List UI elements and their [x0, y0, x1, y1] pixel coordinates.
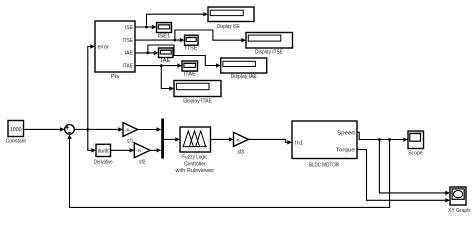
svg-text:IAE: IAE [125, 51, 134, 57]
svg-text:Display IAE: Display IAE [231, 74, 257, 80]
mux Mux [161, 119, 164, 159]
constant block Constant (1000) [6, 121, 26, 145]
node junction on ITAE wire [160, 64, 163, 67]
node junction Speed to XY Graph branch [378, 138, 381, 141]
wire ISE branch to Display ISE [147, 12, 209, 27]
svg-text:with Ruleviewer: with Ruleviewer [175, 168, 215, 174]
wire ITSE branch to Display ITSE [175, 30, 246, 42]
svg-text:Display ISE: Display ISE [217, 24, 240, 30]
derivative block du/dt [94, 144, 113, 165]
scope ITSE [185, 35, 199, 51]
display Display ITSE [246, 33, 293, 56]
svg-text:-K-: -K- [125, 127, 132, 132]
svg-text:ISE1: ISE1 [158, 34, 171, 40]
wire sf2 to Mux [150, 148, 161, 152]
wire Constant to Sum [24, 127, 65, 131]
scope ISE1 [157, 23, 172, 40]
wire Mux to Fuzzy Logic Controller [164, 137, 180, 141]
display Display ISE [208, 7, 254, 30]
svg-text:-K-: -K- [235, 137, 242, 142]
node error tap junction [86, 128, 89, 131]
svg-text:Controller: Controller [184, 161, 206, 167]
node junction Speed feedback branch [388, 138, 391, 141]
wire tap down to Derivative [88, 129, 96, 152]
svg-text:ISE: ISE [125, 25, 134, 31]
svg-text:1000: 1000 [10, 127, 22, 133]
wire IAE branch to Display IAE [148, 45, 221, 68]
wire Speed output to Scope [357, 132, 408, 141]
svg-text:Display ITAE: Display ITAE [183, 98, 212, 104]
svg-text:XY Graph: XY Graph [448, 208, 470, 214]
wire IAE output to scope IAE [135, 51, 159, 55]
wire Derivative to gain sf2 [111, 148, 135, 152]
svg-text:IAE: IAE [161, 58, 171, 64]
svg-text:Derivative: Derivative [94, 160, 113, 166]
wire Speed branch to XY Graph first input [379, 140, 450, 196]
svg-text:sf3: sf3 [237, 149, 244, 155]
svg-text:Torque: Torque [336, 148, 355, 154]
scope ITAE [182, 61, 198, 77]
svg-text:PIs: PIs [111, 74, 120, 80]
svg-text:In1: In1 [295, 140, 303, 146]
node junction on ITSE wire [174, 39, 177, 42]
fuzzy logic controller block Fuzzy Logic Controller with Ruleviewer [175, 127, 215, 174]
node junction on ISE wire [145, 26, 148, 29]
display Display ITAE [174, 81, 221, 105]
svg-text:BLDC MOTOR: BLDC MOTOR [309, 162, 339, 168]
wire Sum output to gain sf1 [74, 127, 123, 131]
gain sf3 [234, 132, 249, 155]
wire Fuzzy Logic Controller to gain sf3 [211, 137, 234, 141]
svg-text:ITSE: ITSE [123, 38, 134, 44]
svg-text:du/dt: du/dt [98, 148, 110, 154]
subsystem BLDC MOTOR [292, 121, 357, 168]
svg-text:Scope: Scope [408, 150, 423, 156]
wire ISE output to scope ISE1 [135, 25, 157, 29]
sum junction [65, 125, 75, 135]
svg-text:sf2: sf2 [139, 159, 146, 165]
scope IAE [159, 48, 174, 64]
svg-text:-K-: -K- [136, 148, 143, 153]
wire ITSE output to scope ITSE [135, 38, 185, 42]
svg-text:Speed: Speed [337, 131, 355, 137]
svg-text:error: error [98, 45, 109, 51]
svg-text:sf1: sf1 [127, 139, 134, 145]
wire Torque output to XY Graph second input [357, 150, 450, 203]
svg-text:ITAE: ITAE [123, 63, 134, 69]
gain sf1 [123, 123, 138, 145]
xy graph XY Graph [448, 187, 470, 214]
svg-text:Display ITSE: Display ITSE [255, 50, 283, 56]
gain sf2 [134, 143, 150, 166]
wire sf1 to Mux [138, 127, 162, 131]
subsystem PIs [95, 21, 135, 80]
wire ITAE branch to Display ITAE [161, 66, 174, 91]
node junction on IAE wire [147, 52, 150, 55]
display Display IAE [221, 58, 267, 80]
svg-text:Fuzzy Logic: Fuzzy Logic [182, 155, 207, 161]
wire Speed feedback to Sum [67, 134, 389, 207]
wire error tap up to PIs input [88, 44, 95, 129]
svg-text:ITSE: ITSE [185, 46, 198, 52]
svg-text:Constant: Constant [6, 138, 26, 144]
scope Scope [408, 131, 424, 156]
svg-text:ITAE: ITAE [184, 71, 197, 77]
wire ITAE output to scope ITAE [135, 63, 182, 67]
wire sf3 to BLDC MOTOR In1 [249, 139, 293, 144]
